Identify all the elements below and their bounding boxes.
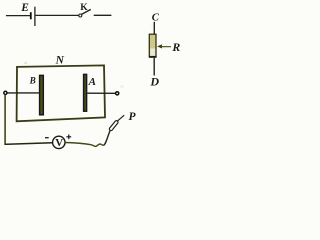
svg-text:P: P <box>129 111 137 123</box>
svg-text:E: E <box>20 2 29 14</box>
wire <box>94 14 112 16</box>
node (left terminal) <box>4 91 7 94</box>
svg-text:K: K <box>80 3 88 13</box>
wire <box>6 15 30 17</box>
wire <box>104 131 110 146</box>
resistor R <box>149 34 157 57</box>
probe P <box>109 111 137 131</box>
wire (left drop) <box>4 95 6 144</box>
svg-text:A: A <box>88 76 96 88</box>
wire <box>87 92 115 94</box>
svg-text:D: D <box>149 74 159 88</box>
svg-text:B: B <box>29 75 36 85</box>
voltmeter V <box>45 134 71 149</box>
wire <box>153 58 155 76</box>
svg-text:V: V <box>55 137 63 149</box>
svg-text:N: N <box>55 55 65 67</box>
wire <box>36 14 79 16</box>
plate A <box>84 74 96 111</box>
wire <box>4 143 52 145</box>
wire (flexible lead) <box>65 143 104 147</box>
plate B <box>29 75 44 114</box>
wire <box>7 92 40 94</box>
switch K <box>79 3 91 17</box>
wire <box>153 22 155 34</box>
battery E <box>20 2 35 26</box>
vessel N <box>17 55 105 122</box>
svg-text:C: C <box>152 11 160 23</box>
right terminal <box>116 92 119 95</box>
arrow to R <box>157 40 180 54</box>
paper speckles <box>24 25 153 88</box>
svg-text:R: R <box>171 40 180 54</box>
